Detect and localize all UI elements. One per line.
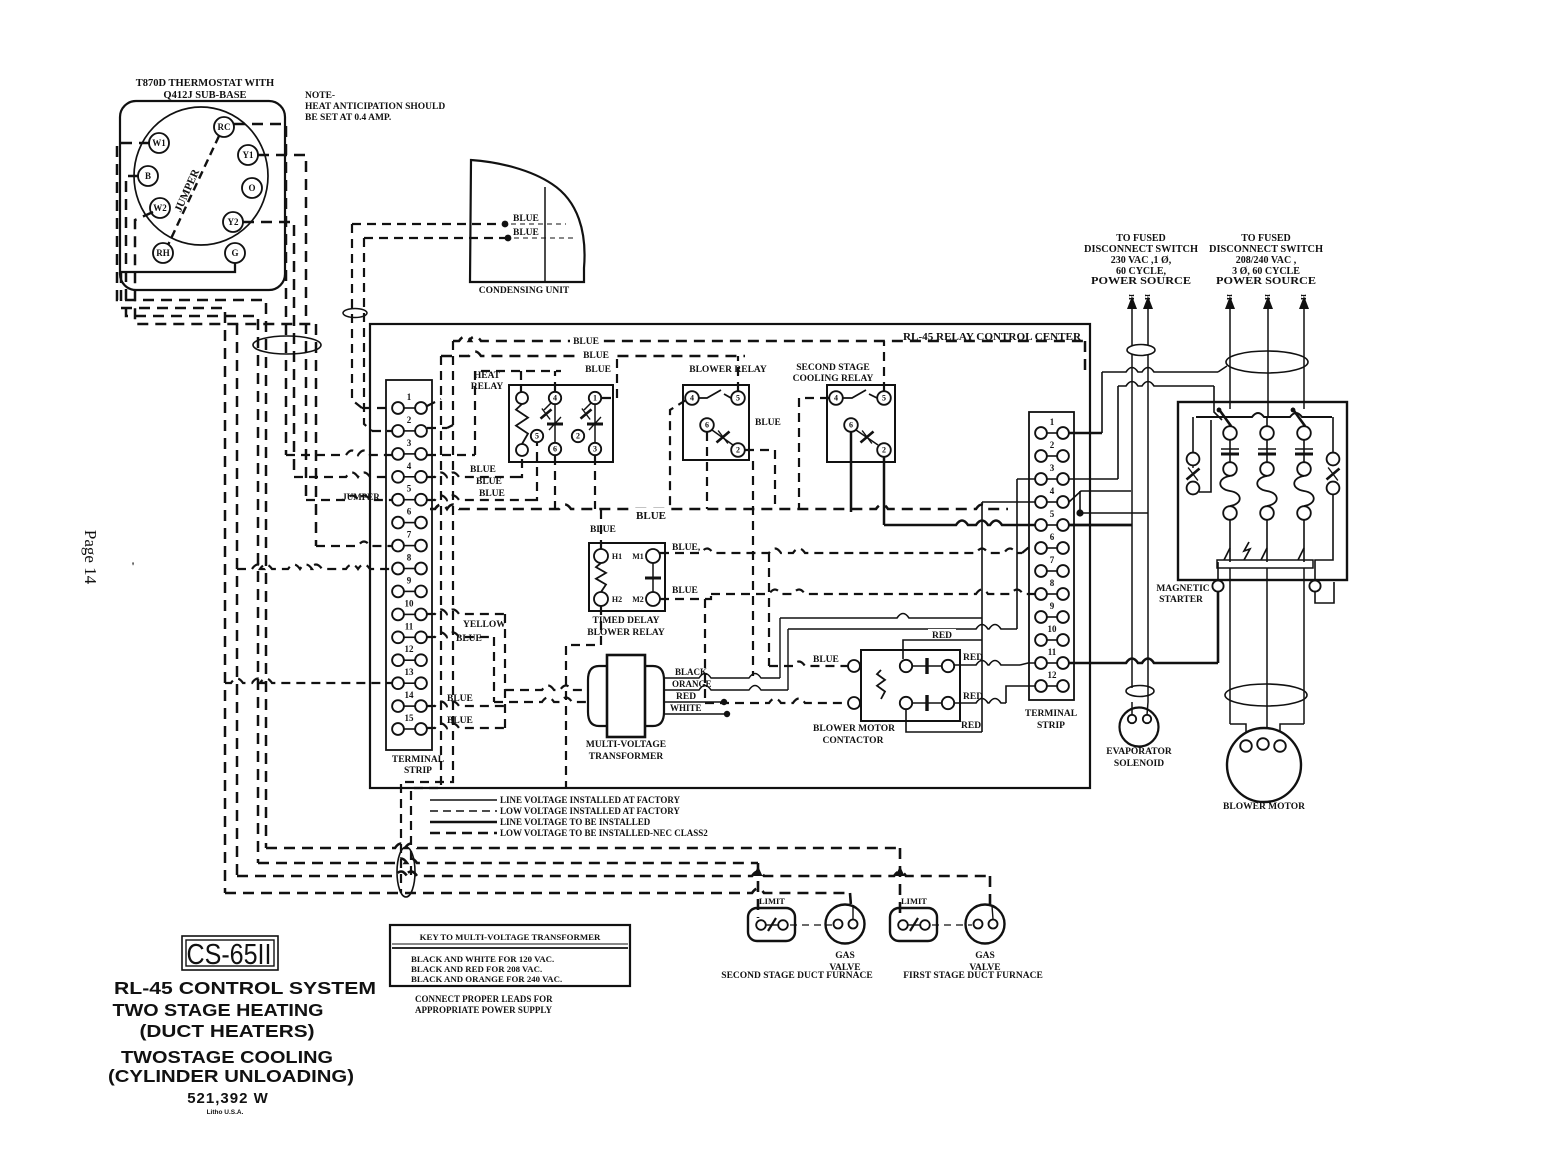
svg-text:W1: W1 xyxy=(152,138,166,148)
svg-text:5: 5 xyxy=(882,394,886,403)
legend low voltage factory text xyxy=(500,806,680,816)
svg-text:TIMED DELAY: TIMED DELAY xyxy=(593,616,660,626)
heat relay contact 1 xyxy=(589,392,601,404)
svg-text:TO FUSED: TO FUSED xyxy=(1116,233,1166,244)
svg-text:WHITE: WHITE xyxy=(670,703,702,713)
litho usa xyxy=(207,1109,244,1116)
evaporator solenoid body xyxy=(1120,702,1159,747)
contactor terminal lower-left xyxy=(848,697,860,709)
starter phase column 1 coil contact xyxy=(1220,462,1240,520)
label BLUE bus3 xyxy=(582,362,615,375)
svg-text:BLUE: BLUE xyxy=(479,489,505,499)
blower relay label xyxy=(689,365,767,375)
svg-text:10: 10 xyxy=(405,598,415,608)
cooling relay contact 6 xyxy=(844,418,858,432)
svg-text:8: 8 xyxy=(407,553,412,563)
terminal strip right row 12 xyxy=(1035,670,1069,692)
cable clamp ellipse condensing pair xyxy=(343,309,367,318)
evaporator solenoid caption xyxy=(1106,747,1172,769)
wire Y2 to row 4 xyxy=(294,473,392,478)
blower motor contactor caption xyxy=(813,724,895,746)
power source label 208-240VAC xyxy=(1209,233,1323,287)
label RED row11 xyxy=(963,653,983,663)
legend line voltage factory sample xyxy=(430,799,497,801)
starter bottom terminal left xyxy=(1212,562,1223,592)
svg-text:RED: RED xyxy=(963,653,983,663)
wire row11 blue to transformer xyxy=(427,633,588,703)
svg-text:7: 7 xyxy=(1050,555,1055,565)
label BLUE H1 xyxy=(590,525,616,535)
svg-text:Q412J SUB-BASE: Q412J SUB-BASE xyxy=(163,90,246,101)
magnetic starter enclosure xyxy=(1178,402,1347,580)
svg-text:GAS: GAS xyxy=(835,951,855,961)
wires starter to blower motor xyxy=(1230,568,1304,740)
wire H1 to blue bus xyxy=(600,509,602,549)
label BLUE contactor xyxy=(813,655,839,665)
starter phase column 3 lower lead xyxy=(1303,520,1305,562)
wire to row 13 xyxy=(225,679,392,684)
svg-text:EVAPORATOR: EVAPORATOR xyxy=(1106,747,1172,757)
wire row1 to riser xyxy=(427,399,441,406)
wire to row 8 xyxy=(237,565,392,570)
timed delay blower relay caption xyxy=(587,616,665,638)
svg-text:Page 14: Page 14 xyxy=(81,530,100,585)
blower relay enclosure xyxy=(683,385,749,460)
heat relay contact 2 xyxy=(572,430,584,442)
svg-text:CONDENSING UNIT: CONDENSING UNIT xyxy=(479,286,570,296)
wire H2 drop to box bottom xyxy=(566,606,601,788)
legend line voltage factory text xyxy=(500,795,681,805)
svg-text:STRIP: STRIP xyxy=(404,766,432,776)
starter middle column top lead xyxy=(1266,417,1268,426)
svg-text:BLUE,: BLUE, xyxy=(672,543,701,553)
starter phase column 3 coil contact xyxy=(1294,462,1314,520)
label BLUE distribution xyxy=(630,508,670,522)
svg-text:4: 4 xyxy=(553,394,557,403)
terminal strip right row 2 xyxy=(1035,440,1069,462)
jumper label left strip xyxy=(342,492,380,502)
terminal strip left row 12 xyxy=(392,644,427,666)
second stage duct furnace caption xyxy=(721,971,872,981)
svg-text:BLOWER RELAY: BLOWER RELAY xyxy=(689,365,767,375)
terminal strip left row 13 xyxy=(392,667,427,689)
wire contactor to row12 red xyxy=(954,686,1035,703)
legend line voltage to be installed text xyxy=(500,817,651,827)
svg-text:O: O xyxy=(248,183,255,193)
terminal strip right row 9 xyxy=(1035,601,1069,623)
power arrow L1 230VAC xyxy=(1127,296,1137,688)
label BLUE row5 xyxy=(479,489,505,499)
condensing unit inner line xyxy=(544,187,546,282)
svg-text:1: 1 xyxy=(407,392,412,402)
svg-text:T870D THERMOSTAT WITH: T870D THERMOSTAT WITH xyxy=(136,78,274,89)
wire RC to row 3 xyxy=(286,451,392,456)
svg-text:H2: H2 xyxy=(612,595,622,604)
first stage duct furnace caption xyxy=(903,971,1043,981)
wire heat pin6 to bus blue xyxy=(554,456,556,509)
wire row4 to heat coil blue xyxy=(427,456,522,477)
svg-text:BLUE: BLUE xyxy=(447,716,473,726)
terminal Y2 xyxy=(223,212,243,232)
terminal strip right row 4 xyxy=(1035,486,1069,508)
title part number xyxy=(187,1090,269,1107)
svg-text:LIMIT: LIMIT xyxy=(759,896,785,906)
svg-text:15: 15 xyxy=(405,713,415,723)
blower relay contact 6 xyxy=(700,418,714,432)
title cylinder unloading xyxy=(108,1066,354,1086)
blower motor contactor enclosure xyxy=(861,650,960,721)
heat relay NO contact 1-2 xyxy=(581,403,592,420)
blower relay contact 5 xyxy=(731,391,745,405)
terminal strip right enclosure xyxy=(1029,412,1074,700)
wire row3 to starter phase xyxy=(1069,382,1222,480)
label BLUE 2 xyxy=(513,228,539,238)
wire blower relay pin4 drop xyxy=(670,400,686,509)
bus riser row3 xyxy=(427,454,475,456)
svg-text:6: 6 xyxy=(553,445,557,454)
svg-text:CS-65II: CS-65II xyxy=(187,939,272,971)
starter auxiliary contact left xyxy=(1187,417,1212,494)
jumper wire RC to RH xyxy=(168,136,219,245)
wire contactor lower contact to riser red xyxy=(906,710,982,732)
hop arrow second limit xyxy=(754,866,763,876)
cable clamp ellipse 3-phase xyxy=(1226,351,1308,373)
blower relay NO contact 6-2 xyxy=(712,430,733,445)
cooling relay contact 4 xyxy=(829,391,843,405)
label RED lead xyxy=(676,692,696,702)
svg-text:5: 5 xyxy=(407,484,412,494)
svg-text:14: 14 xyxy=(405,690,415,700)
svg-text:4: 4 xyxy=(834,394,838,403)
gas valve first stage xyxy=(966,905,1005,944)
cable bundle ellipse bottom xyxy=(397,847,415,897)
condensing unit outline xyxy=(470,160,585,282)
svg-text:1: 1 xyxy=(1050,417,1055,427)
wire M2 to row 8 right strip xyxy=(660,590,1035,600)
terminal strip left row 7 xyxy=(392,530,427,552)
wire riser bus2 drop to bundle xyxy=(411,356,441,876)
label RED row12 xyxy=(963,692,983,702)
svg-text:LOW VOLTAGE INSTALLED AT FACTO: LOW VOLTAGE INSTALLED AT FACTORY xyxy=(500,806,680,816)
terminal strip left row 8 xyxy=(392,553,427,575)
starter phase column 1 lower lead xyxy=(1229,520,1231,562)
wire W2 trunk xyxy=(135,212,316,876)
terminal strip right row 7 xyxy=(1035,555,1069,577)
heat relay label xyxy=(471,371,504,392)
bus blue 1 xyxy=(453,337,1085,373)
wire junction to power L2 xyxy=(1080,512,1148,514)
svg-text:5: 5 xyxy=(736,394,740,403)
svg-text:RED: RED xyxy=(932,631,952,641)
svg-text:6: 6 xyxy=(705,421,709,430)
svg-text:HEAT ANTICIPATION SHOULD: HEAT ANTICIPATION SHOULD xyxy=(305,102,445,112)
svg-text:W2: W2 xyxy=(153,203,167,213)
label BLUE row4 xyxy=(470,465,496,475)
wire condensing 1 to row 1 xyxy=(352,224,392,408)
wire Y2 trunk xyxy=(243,222,294,477)
heat relay contact 3 xyxy=(589,443,601,455)
svg-text:BLACK AND ORANGE FOR 240 VAC.: BLACK AND ORANGE FOR 240 VAC. xyxy=(411,974,562,984)
label BLUE bus1 xyxy=(570,334,603,347)
wire run D to second stage gas valve xyxy=(225,889,851,907)
svg-text:4: 4 xyxy=(407,461,412,471)
wire condensing 2 to row 2 xyxy=(364,238,392,431)
terminal strip left row 5 xyxy=(392,484,427,506)
wire blower relay pin6 drop xyxy=(706,432,708,509)
page number label xyxy=(81,530,100,585)
wire row2 to riser xyxy=(427,425,453,428)
svg-text:12: 12 xyxy=(1048,670,1058,680)
svg-text:BLUE: BLUE xyxy=(447,694,473,704)
heat relay contact 5 xyxy=(531,430,543,442)
svg-text:2: 2 xyxy=(1050,440,1055,450)
wire row10 yellow to transformer xyxy=(427,610,588,729)
wire cooling relay pin2 to row5 xyxy=(851,432,1035,525)
heat relay contact 4 xyxy=(549,392,561,404)
svg-text:230 VAC ,1 Ø,: 230 VAC ,1 Ø, xyxy=(1111,255,1172,266)
wire contactor to row11 red xyxy=(954,661,1035,666)
timed delay blower relay enclosure xyxy=(589,543,665,611)
svg-text:3: 3 xyxy=(407,438,412,448)
cable clamp ellipse solenoid xyxy=(1126,686,1154,697)
RL-45 relay control center enclosure xyxy=(370,324,1090,788)
key box header xyxy=(420,932,601,942)
wire orange riser to row3 xyxy=(788,479,1035,629)
limit switch first stage xyxy=(890,908,937,941)
wire heat pin3 down xyxy=(594,456,596,509)
svg-text:BLUE: BLUE xyxy=(573,337,599,347)
wire row4 to power L1 xyxy=(1069,491,1131,502)
wire blower relay pin5 to bus2 xyxy=(737,356,739,391)
terminal W1 xyxy=(149,133,169,153)
terminal strip left caption xyxy=(392,755,444,776)
svg-text:H1: H1 xyxy=(612,552,622,561)
svg-text:LIMIT: LIMIT xyxy=(901,896,927,906)
svg-text:STARTER: STARTER xyxy=(1159,595,1203,605)
svg-text:BLACK AND WHITE FOR 120 VAC.: BLACK AND WHITE FOR 120 VAC. xyxy=(411,954,554,964)
svg-text:10: 10 xyxy=(1048,624,1058,634)
legend line voltage to be installed sample xyxy=(430,821,497,824)
wire blower relay pin2 drop xyxy=(745,450,775,509)
starter bottom terminal right xyxy=(1309,580,1320,591)
phase marks 230VAC xyxy=(1127,294,1152,300)
label BLUE M2 xyxy=(672,586,698,596)
cooling relay switch blade 4-5 xyxy=(843,390,877,398)
svg-text:BLUE: BLUE xyxy=(585,365,611,375)
svg-text:BLUE: BLUE xyxy=(470,465,496,475)
svg-text:CONNECT PROPER LEADS FOR: CONNECT PROPER LEADS FOR xyxy=(415,994,553,1004)
bus blue 3 xyxy=(475,371,561,455)
svg-text:POWER SOURCE: POWER SOURCE xyxy=(1216,276,1316,287)
svg-text:M1: M1 xyxy=(632,552,644,561)
timed delay relay terminal H2 xyxy=(594,592,622,606)
terminal strip left row 11 xyxy=(392,621,427,643)
terminal strip right row 6 xyxy=(1035,532,1069,554)
terminal strip right row 5 xyxy=(1035,509,1069,531)
power arrow phase B xyxy=(1263,296,1273,417)
svg-text:13: 13 xyxy=(405,667,415,677)
wire transformer ORANGE lead xyxy=(664,629,788,690)
wire B trunk xyxy=(126,176,258,863)
svg-text:5: 5 xyxy=(535,432,539,441)
svg-text:521,392 W: 521,392 W xyxy=(187,1090,269,1107)
starter switch blade phase 1 xyxy=(1217,408,1231,426)
wire starter right terminal elbow xyxy=(1315,582,1334,603)
wire limit to gas valve first stage xyxy=(932,924,972,926)
svg-text:3: 3 xyxy=(1050,463,1055,473)
thermostat sub-base outline xyxy=(120,101,285,290)
wire transformer BLACK lead xyxy=(664,618,780,678)
wire row5 to solenoid xyxy=(1069,524,1132,527)
svg-text:(CYLINDER UNLOADING): (CYLINDER UNLOADING) xyxy=(108,1066,354,1086)
wire row11 to starter xyxy=(1069,592,1218,663)
starter phase column 2 upper contact xyxy=(1258,426,1276,462)
contactor coil xyxy=(877,670,885,699)
title two stage heating xyxy=(113,1000,324,1020)
cable bundle ellipse left xyxy=(253,336,321,354)
wire run A to first stage limit xyxy=(266,844,900,919)
wire cooling relay pin5 to bus1 xyxy=(883,341,885,391)
svg-text:5: 5 xyxy=(1050,509,1055,519)
svg-text:SECOND STAGE: SECOND STAGE xyxy=(796,363,869,373)
wire Y1 to row 5 xyxy=(306,496,392,501)
svg-text:2: 2 xyxy=(576,432,580,441)
wire RC trunk xyxy=(234,124,286,455)
svg-text:Y2: Y2 xyxy=(228,217,239,227)
svg-text:2: 2 xyxy=(407,415,412,425)
title RL-45 control system xyxy=(114,978,376,998)
terminal strip left row 10 xyxy=(392,598,427,620)
label BLUE row14 xyxy=(447,694,473,704)
svg-text:BLUE: BLUE xyxy=(476,477,502,487)
svg-text:TWOSTAGE COOLING: TWOSTAGE COOLING xyxy=(121,1047,333,1067)
hop arrow first limit xyxy=(896,866,905,876)
svg-text:TRANSFORMER: TRANSFORMER xyxy=(589,752,664,762)
svg-text:DISCONNECT SWITCH: DISCONNECT SWITCH xyxy=(1209,244,1323,255)
svg-text:MULTI-VOLTAGE: MULTI-VOLTAGE xyxy=(586,740,666,750)
terminal strip left row 15 xyxy=(392,713,427,735)
heat relay coil xyxy=(516,392,528,456)
terminal Y1 xyxy=(238,145,258,165)
cooling relay NO contact 6-2 xyxy=(856,430,878,445)
label RED riser xyxy=(928,629,956,641)
heat relay enclosure xyxy=(509,385,613,462)
limit label first stage xyxy=(901,896,927,906)
terminal O xyxy=(242,178,262,198)
label ORANGE xyxy=(672,679,712,689)
svg-text:BLUE: BLUE xyxy=(513,214,539,224)
label RED bottom xyxy=(961,721,981,731)
svg-text:(DUCT HEATERS): (DUCT HEATERS) xyxy=(140,1021,315,1041)
label BLUE row15 xyxy=(447,716,473,726)
svg-text:BLUE: BLUE xyxy=(672,586,698,596)
wire heat relay pin4 to bus3 xyxy=(554,371,556,391)
label BLACK xyxy=(675,667,707,677)
svg-text:Litho U.S.A.: Litho U.S.A. xyxy=(207,1109,244,1116)
svg-text:BLOWER RELAY: BLOWER RELAY xyxy=(587,628,665,638)
svg-text:KEY TO MULTI-VOLTAGE TRANSFOR: KEY TO MULTI-VOLTAGE TRANSFORMER xyxy=(420,932,601,942)
wire riser bus1 drop to bundle xyxy=(401,341,453,893)
label WHITE xyxy=(670,703,702,713)
svg-text:LOW VOLTAGE TO BE INSTALLED-NE: LOW VOLTAGE TO BE INSTALLED-NEC CLASS2 xyxy=(500,828,708,838)
condensing unit label xyxy=(479,286,570,296)
timed delay relay heater element xyxy=(596,563,606,592)
wire G branch to row 7 xyxy=(315,324,318,546)
svg-text:TWO STAGE HEATING: TWO STAGE HEATING xyxy=(113,1000,324,1020)
svg-text:LINE VOLTAGE INSTALLED AT FACT: LINE VOLTAGE INSTALLED AT FACTORY xyxy=(500,795,681,805)
starter phase column 1 upper contact xyxy=(1221,426,1239,462)
svg-text:12: 12 xyxy=(405,644,415,654)
timed delay relay contact M1-M2 xyxy=(645,563,661,592)
svg-text:9: 9 xyxy=(407,575,412,585)
bus blue 2 xyxy=(441,352,745,357)
connect proper leads note xyxy=(415,994,553,1015)
terminal RH xyxy=(153,243,173,263)
second stage cooling relay enclosure xyxy=(827,385,895,462)
junction dot row4 xyxy=(1076,491,1083,517)
limit switch second stage xyxy=(748,908,795,941)
svg-text:RED: RED xyxy=(963,692,983,702)
svg-text:4: 4 xyxy=(690,394,694,403)
legend low voltage to be installed text xyxy=(500,828,708,838)
svg-text:POWER SOURCE: POWER SOURCE xyxy=(1091,276,1191,287)
wire black riser to row4 xyxy=(780,502,1035,732)
wire to row 7 xyxy=(316,542,392,547)
transformer caption xyxy=(586,740,666,762)
terminal strip right caption xyxy=(1025,709,1077,731)
label YELLOW xyxy=(463,620,506,630)
limit label second stage xyxy=(759,896,785,906)
key to transformer box xyxy=(390,925,630,986)
legend low voltage factory sample xyxy=(430,810,497,812)
terminal strip left row 2 xyxy=(392,415,427,437)
svg-text:BLUE: BLUE xyxy=(590,525,616,535)
svg-text:GAS: GAS xyxy=(975,951,995,961)
terminal strip left row 9 xyxy=(392,575,427,597)
terminal strip right row 1 xyxy=(1035,417,1069,439)
multi-voltage transformer core xyxy=(588,655,664,737)
svg-text:CONTACTOR: CONTACTOR xyxy=(823,736,884,746)
svg-text:RED: RED xyxy=(676,692,696,702)
relay control center label xyxy=(898,329,1086,343)
contactor lower contact xyxy=(900,695,954,711)
svg-text:RC: RC xyxy=(218,122,231,132)
drawing number box CS-6511 xyxy=(182,936,278,970)
svg-text:YELLOW: YELLOW xyxy=(463,620,506,630)
wire dashed drop beside contactor feed xyxy=(752,461,754,676)
terminal strip left row 14 xyxy=(392,690,427,712)
svg-text:6: 6 xyxy=(1050,532,1055,542)
starter phase column 2 coil contact xyxy=(1257,462,1277,520)
wire row15 blue xyxy=(427,724,505,729)
svg-text:7: 7 xyxy=(407,530,412,540)
svg-text:11: 11 xyxy=(1048,647,1057,657)
svg-text:BLUE: BLUE xyxy=(583,351,609,361)
starter auxiliary contact right xyxy=(1315,417,1340,580)
wire limit to gas valve second stage xyxy=(790,924,832,926)
svg-text:208/240 VAC ,: 208/240 VAC , xyxy=(1236,255,1297,266)
svg-text:BLUE: BLUE xyxy=(513,228,539,238)
svg-text:6: 6 xyxy=(407,507,412,517)
svg-text:BLACK: BLACK xyxy=(675,667,707,677)
wire blue to contactor lower xyxy=(705,599,848,703)
terminal strip left row 3 xyxy=(392,438,427,460)
bus blue distribution xyxy=(430,505,1008,510)
wire G solid elbow xyxy=(121,263,235,272)
cable clamp ellipse 230VAC xyxy=(1127,345,1155,356)
svg-text:FIRST STAGE DUCT FURNACE: FIRST STAGE DUCT FURNACE xyxy=(903,971,1043,981)
terminal W2 xyxy=(150,198,170,218)
